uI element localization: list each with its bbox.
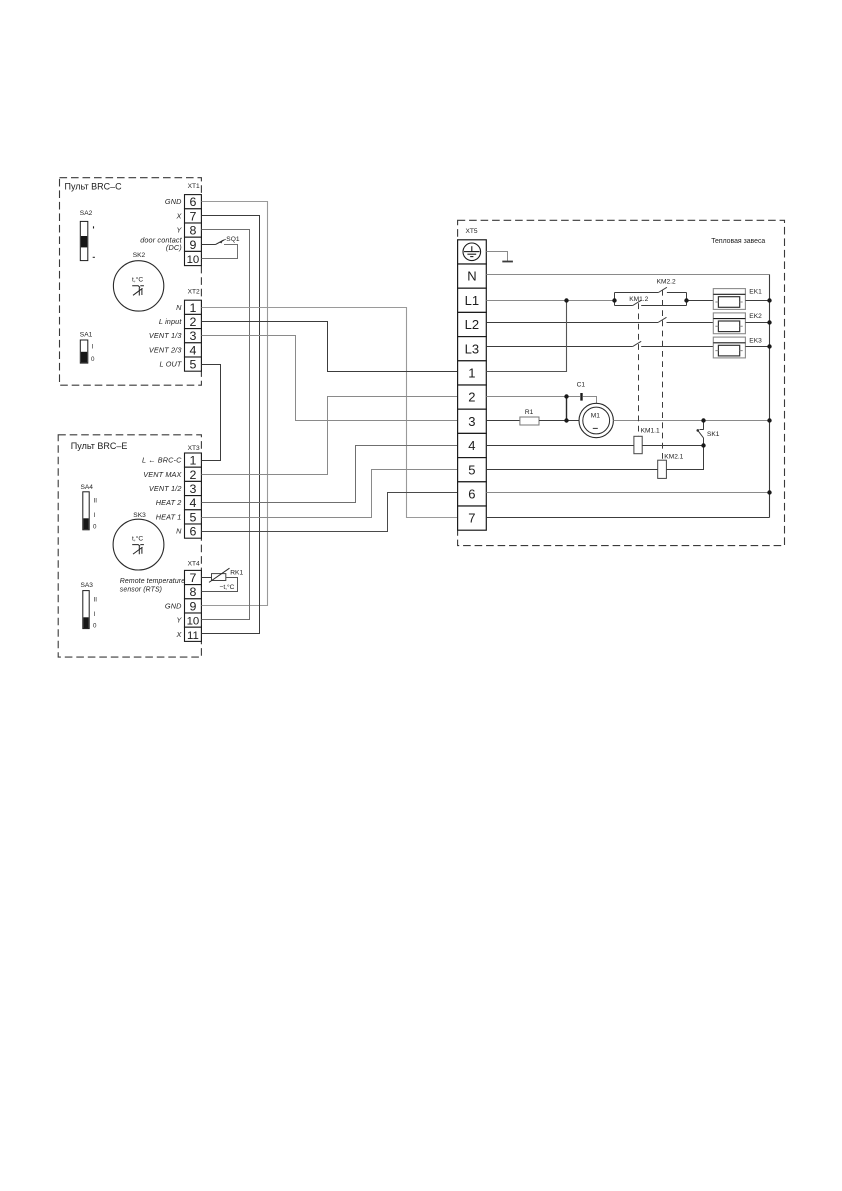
contactor coil KM1.1 — [634, 436, 642, 453]
svg-text:EK1: EK1 — [749, 288, 762, 295]
svg-text:10: 10 — [187, 254, 200, 266]
wire L1 row — [486, 300, 614, 302]
door switch SQ1 blade — [215, 240, 223, 245]
junction dot EK3/bus — [767, 344, 771, 348]
svg-text:t,°C: t,°C — [132, 534, 143, 542]
svg-text:N: N — [176, 527, 182, 536]
svg-text:I: I — [94, 611, 96, 618]
svg-text:C1: C1 — [577, 382, 586, 389]
door switch SQ1 fixed contact and loop to pin 10 — [202, 245, 238, 259]
heater EK2 — [713, 313, 745, 334]
wire XT3:5 HEAT 1 to XT5:5 — [202, 470, 458, 518]
junction dot EK2/bus — [767, 320, 771, 324]
svg-text:XT2: XT2 — [188, 289, 200, 296]
wire XT5:6 row to bus — [486, 492, 769, 494]
wire XT5:2 row to C1 — [486, 396, 580, 398]
terminal block XT4 (pins 7-11) — [185, 570, 202, 641]
svg-text:Пульт BRC–C: Пульт BRC–C — [65, 181, 123, 191]
svg-text:5: 5 — [468, 462, 475, 477]
svg-text:GND: GND — [165, 197, 182, 206]
mechanical linkage KM1 (dashed) — [638, 303, 640, 436]
svg-text:M1: M1 — [591, 412, 600, 419]
switch SA1 body — [80, 340, 88, 363]
svg-text:Пульт BRC–E: Пульт BRC–E — [71, 441, 128, 451]
junction dot C1 branch — [564, 394, 568, 398]
resistor R1 — [520, 417, 539, 425]
svg-text:(DC): (DC) — [166, 243, 182, 252]
svg-text:Remote temperature: Remote temperature — [120, 578, 185, 585]
svg-text:0: 0 — [93, 524, 97, 531]
svg-text:6: 6 — [468, 487, 475, 502]
temperature sensor SK3 circle — [113, 519, 164, 570]
svg-text:XT1: XT1 — [188, 183, 200, 190]
svg-text:SK3: SK3 — [133, 512, 146, 519]
svg-text:SA1: SA1 — [80, 332, 93, 339]
KM1 contact blade on L3 — [633, 341, 642, 346]
svg-text:0: 0 — [93, 623, 97, 630]
svg-text:L input: L input — [159, 317, 182, 326]
svg-text:EK3: EK3 — [749, 337, 762, 344]
svg-text:1: 1 — [189, 454, 196, 468]
svg-text:EK2: EK2 — [749, 313, 762, 320]
thermal switch SK1 upper stub — [700, 421, 704, 430]
svg-text:HEAT 2: HEAT 2 — [156, 498, 182, 507]
heater EK3 — [713, 337, 745, 358]
svg-text:L3: L3 — [465, 341, 479, 356]
svg-text:6: 6 — [189, 525, 196, 539]
wire C1 to motor top — [583, 397, 597, 405]
wire R1 to motor — [539, 420, 579, 422]
svg-text:X: X — [176, 211, 183, 220]
junction dot L1/x566.7 — [564, 298, 568, 302]
junction dot EK1/bus — [767, 298, 771, 302]
temperature sensor SK2 circle — [113, 261, 163, 311]
switch SA2 body — [80, 221, 88, 260]
svg-text:SA3: SA3 — [81, 582, 94, 589]
capacitor C1 plate — [580, 393, 582, 401]
wire XT2:5 L OUT to XT3:1 — [202, 365, 221, 461]
panel Пульт BRC-E (dashed enclosure) — [58, 435, 201, 657]
wire XT5:7 row to bus — [486, 517, 769, 519]
svg-text:VENT 2/3: VENT 2/3 — [149, 345, 182, 354]
svg-text:9: 9 — [189, 599, 196, 613]
terminal block XT2 (pins 1-5) — [185, 300, 202, 371]
earth wire from XT5 PE terminal — [486, 252, 507, 262]
svg-text:X: X — [176, 630, 183, 639]
svg-text:L1: L1 — [465, 293, 479, 308]
switch SA4 body — [83, 492, 89, 530]
wire XT2:3 VENT 1/3 to XT5:3 — [202, 336, 458, 421]
motor M1 circles — [579, 403, 613, 437]
svg-text:9: 9 — [189, 238, 196, 252]
svg-text:5: 5 — [189, 358, 196, 372]
thermistor RK1 body — [212, 574, 226, 581]
wire L1 bracket to EK1 — [687, 300, 714, 302]
svg-text:I: I — [92, 344, 94, 351]
junction dot motor line/bus — [767, 418, 771, 422]
svg-text:4: 4 — [468, 438, 475, 453]
junction dot SK1 top — [701, 418, 705, 422]
svg-text:R1: R1 — [525, 409, 534, 416]
svg-text:sensor (RTS): sensor (RTS) — [120, 587, 162, 594]
mechanical linkage KM2 (dashed) — [662, 290, 664, 460]
wire XT2:2 L input to XT5:1 — [202, 322, 458, 372]
junction dot L1/x614.6 — [612, 298, 616, 302]
svg-text:II: II — [94, 498, 98, 505]
wire EK3 to bus — [745, 346, 769, 348]
wire XT1:8 Y to XT4:10 Y — [202, 230, 250, 620]
junction dot pin6 row/bus — [767, 490, 771, 494]
junction dot L1/x686.8 — [684, 298, 688, 302]
svg-text:6: 6 — [189, 195, 196, 209]
wire KM1.1 to SK1 bottom — [642, 445, 703, 447]
motor tilde — [593, 427, 598, 429]
svg-text:L2: L2 — [465, 317, 479, 332]
svg-text:10: 10 — [187, 616, 200, 628]
wire XT2:1 N to XT5:7 — [202, 308, 458, 518]
SK1 pivot dot — [697, 429, 700, 432]
svg-text:XT5: XT5 — [466, 228, 478, 235]
svg-text:Тепловая завеса: Тепловая завеса — [711, 238, 765, 245]
wire KM2.1 right then up to SK1 bottom — [666, 446, 703, 470]
svg-text:4: 4 — [189, 343, 196, 357]
svg-text:VENT 1/3: VENT 1/3 — [149, 331, 182, 340]
svg-text:XT4: XT4 — [188, 560, 200, 567]
XT5 earth terminal symbol — [463, 243, 481, 261]
svg-text:L ← BRC-C: L ← BRC-C — [142, 456, 182, 465]
svg-text:RK1: RK1 — [230, 569, 243, 576]
svg-text:2: 2 — [189, 315, 196, 329]
junction dot R1/motor branch — [564, 418, 568, 422]
wire XT5:1 bridge up to L1 — [486, 301, 566, 372]
earth bar — [502, 261, 513, 263]
svg-text:7: 7 — [468, 511, 475, 526]
wire XT1:6 GND to XT4:9 GND — [202, 202, 268, 606]
wire XT1:7 X to XT4:11 X — [202, 216, 260, 634]
KM2 contact blade on L2 — [658, 317, 667, 322]
svg-text:3: 3 — [189, 482, 196, 496]
svg-text:KM2.2: KM2.2 — [657, 279, 676, 286]
svg-text:N: N — [176, 303, 182, 312]
marker - of SA2 — [93, 256, 95, 258]
svg-text:8: 8 — [189, 224, 196, 238]
svg-text:3: 3 — [189, 329, 196, 343]
svg-text:XT3: XT3 — [188, 445, 200, 452]
svg-text:5: 5 — [189, 510, 196, 524]
thermistor RK1 wire from pin 7 — [202, 577, 212, 579]
terminal block XT1 (pins 6-10) — [185, 195, 202, 266]
wire XT3:4 HEAT 2 to XT5:4 — [202, 446, 458, 503]
door switch SQ1 wire from pin 9 — [202, 244, 216, 246]
switch SA3 body — [83, 591, 89, 629]
svg-text:2: 2 — [468, 390, 475, 405]
svg-text:SK1: SK1 — [707, 431, 720, 438]
SK1 blade — [698, 430, 704, 445]
svg-text:VENT 1/2: VENT 1/2 — [149, 484, 182, 493]
svg-text:2: 2 — [189, 468, 196, 482]
svg-text:7: 7 — [189, 571, 196, 585]
SK3 thermostat contact symbol — [132, 545, 144, 555]
svg-text:GND: GND — [165, 601, 182, 610]
svg-text:SA4: SA4 — [81, 484, 94, 491]
vertical link between pin2 and pin3 rows — [566, 397, 568, 421]
wire XT3:2 VENT MAX to XT5:2 — [202, 397, 458, 475]
svg-text:−t,°C: −t,°C — [220, 583, 235, 591]
contactor contacts KM1.2 / KM2.2 parallel bracket on L1 — [615, 287, 687, 305]
svg-text:8: 8 — [189, 585, 196, 599]
svg-text:7: 7 — [189, 209, 196, 223]
svg-text:KM1.2: KM1.2 — [629, 296, 648, 303]
wire EK2 to bus — [745, 322, 769, 324]
svg-text:1: 1 — [468, 366, 475, 381]
contactor coil KM2.1 — [658, 460, 667, 478]
terminal block XT5 — [458, 240, 487, 530]
wire L2 row with KM2 contact — [486, 322, 713, 324]
SK2 thermostat contact symbol — [132, 286, 144, 296]
svg-text:II: II — [94, 597, 98, 604]
svg-text:SQ1: SQ1 — [226, 236, 240, 243]
svg-text:SA2: SA2 — [80, 210, 93, 217]
wire XT5:4 row to KM1.1 coil — [486, 445, 634, 447]
svg-text:N: N — [467, 269, 476, 284]
svg-text:t,°C: t,°C — [132, 276, 143, 284]
terminal block XT3 (pins 1-6) — [185, 453, 202, 538]
wire motor to SK1 junction and bus — [613, 420, 769, 422]
wire L3 row with KM1 contact — [486, 346, 713, 348]
wire N row to right bus — [486, 274, 769, 276]
svg-text:I: I — [94, 512, 96, 519]
svg-text:3: 3 — [468, 414, 475, 429]
svg-text:0: 0 — [91, 356, 95, 363]
wire XT5:5 row to KM2.1 coil — [486, 469, 657, 471]
heater EK1 — [713, 289, 745, 310]
SQ1 leader arrow — [221, 239, 226, 241]
svg-text:L OUT: L OUT — [160, 360, 182, 369]
thermistor RK1 slash — [209, 568, 230, 582]
marker + of SA2 — [93, 226, 95, 228]
svg-text:HEAT 1: HEAT 1 — [156, 512, 182, 521]
svg-text:VENT MAX: VENT MAX — [143, 470, 182, 479]
wire XT5:3 row to R1 — [486, 420, 520, 422]
svg-text:1: 1 — [189, 301, 196, 315]
svg-text:4: 4 — [189, 496, 196, 510]
svg-text:KM1.1: KM1.1 — [641, 428, 660, 435]
svg-text:SK2: SK2 — [133, 252, 146, 259]
wire EK1 to bus — [745, 300, 769, 302]
enclosure Тепловая завеса (dashed) — [458, 220, 785, 545]
svg-text:11: 11 — [187, 630, 199, 642]
junction dot SK1 bottom — [701, 443, 705, 447]
right neutral bus vertical — [769, 275, 771, 518]
panel Пульт BRC-C (dashed enclosure) — [60, 178, 202, 386]
svg-text:KM2.1: KM2.1 — [664, 454, 683, 461]
RK1 loop to pin 8 — [202, 578, 238, 592]
wire XT3:6 N to XT5:6 — [202, 493, 458, 532]
